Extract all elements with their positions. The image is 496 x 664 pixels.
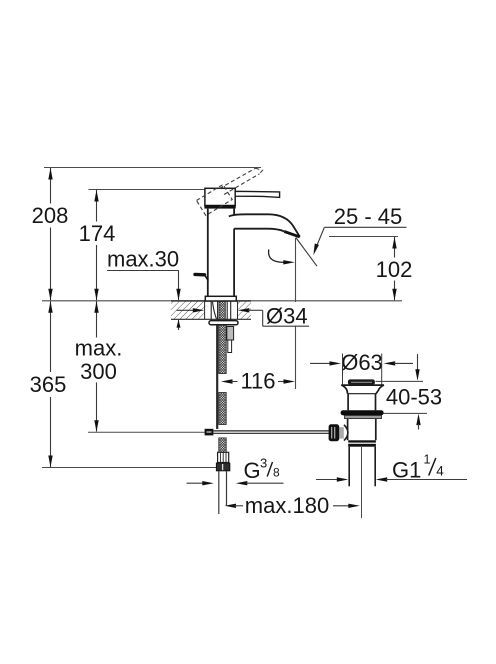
curved swivel arrow bbox=[269, 250, 295, 265]
dimension G1 1/4 bbox=[316, 453, 467, 483]
drain coupling rings bbox=[348, 440, 376, 446]
pop-up transfer rod horizontal (and max.300 extension) bbox=[88, 431, 329, 433]
dimension 174 bbox=[79, 190, 116, 300]
svg-text:365: 365 bbox=[30, 372, 67, 397]
counter slab hatched section bbox=[171, 301, 251, 319]
hose end nut G3/8 bbox=[216, 463, 229, 471]
drain rubber gasket bbox=[341, 410, 384, 415]
drain center line bbox=[361, 447, 363, 518]
dimension max.300 bbox=[75, 301, 123, 431]
dimension max.30 leader bbox=[107, 247, 181, 331]
drain body bbox=[348, 419, 376, 441]
drain rod knob bbox=[329, 424, 344, 441]
svg-text:1: 1 bbox=[424, 453, 431, 467]
base flange bbox=[205, 296, 236, 301]
water stream diagonal line bbox=[296, 238, 317, 267]
spout bbox=[229, 214, 300, 237]
braided supply hose bbox=[219, 325, 226, 452]
shank parts inside counter hole bbox=[211, 301, 231, 320]
svg-text:300: 300 bbox=[80, 359, 117, 384]
svg-text:Ø34: Ø34 bbox=[266, 304, 308, 329]
dashed cartridge (tilted position) bbox=[197, 185, 233, 216]
lever handle (horizontal position) bbox=[235, 191, 279, 197]
svg-text:102: 102 bbox=[376, 257, 413, 282]
faucet body bbox=[208, 209, 234, 297]
handle cartridge box bbox=[204, 188, 235, 208]
extension line top of handle body (174 top) bbox=[89, 189, 205, 191]
dimension Ø63 bbox=[310, 350, 413, 385]
svg-text:Ø63: Ø63 bbox=[341, 350, 383, 375]
hose collar bbox=[218, 452, 229, 462]
drain pop-up plug cap bbox=[348, 379, 375, 385]
gasket underside washer bbox=[345, 415, 382, 418]
svg-text:116: 116 bbox=[240, 369, 275, 394]
drain flange dome bbox=[341, 385, 384, 410]
dimension 116 bbox=[221, 369, 295, 394]
svg-text:25 - 45: 25 - 45 bbox=[334, 204, 403, 229]
dimension 25 - 45 label and leader bbox=[313, 204, 406, 255]
svg-text:G1: G1 bbox=[392, 458, 421, 483]
dimension 365 bbox=[30, 301, 67, 467]
extension line spout outlet (102 top) bbox=[329, 236, 398, 238]
svg-text:208: 208 bbox=[32, 203, 69, 228]
dimension 208 bbox=[32, 168, 69, 300]
svg-text:8: 8 bbox=[273, 466, 280, 480]
svg-text:G: G bbox=[244, 458, 261, 483]
extension line from spout tip down (116 right / stream) bbox=[295, 238, 297, 389]
svg-text:max.180: max.180 bbox=[245, 493, 329, 518]
svg-text:max.30: max.30 bbox=[107, 247, 179, 272]
dimension Ø34 leader bbox=[177, 302, 310, 329]
dimension 40-53 bbox=[376, 354, 443, 430]
svg-text:max.: max. bbox=[75, 336, 123, 361]
extension line bottom (365 bottom, at hose nut) bbox=[42, 467, 216, 469]
svg-text:174: 174 bbox=[79, 221, 116, 246]
counter top line bbox=[42, 300, 402, 302]
hose fitting below nut bbox=[227, 327, 234, 353]
hose tube end lines bbox=[219, 471, 227, 514]
dimension G3/8 bbox=[187, 456, 284, 486]
pop-up pull rod knob on body bbox=[195, 274, 208, 280]
mounting nut washer bbox=[209, 321, 238, 325]
dimension 102 bbox=[376, 237, 413, 300]
svg-text:40-53: 40-53 bbox=[386, 385, 442, 410]
svg-text:3: 3 bbox=[260, 456, 267, 471]
dimension max.180 bbox=[225, 493, 360, 518]
pop-up rod vertical bbox=[216, 325, 218, 429]
svg-text:4: 4 bbox=[436, 464, 444, 479]
dashed lever (raised position) bbox=[220, 168, 263, 194]
drain ball-joint arc bbox=[344, 425, 348, 441]
drain tailpipe bbox=[349, 447, 375, 487]
extension line top of raised lever (208 top) bbox=[44, 167, 261, 169]
rod-to-hose connector bbox=[205, 429, 214, 436]
